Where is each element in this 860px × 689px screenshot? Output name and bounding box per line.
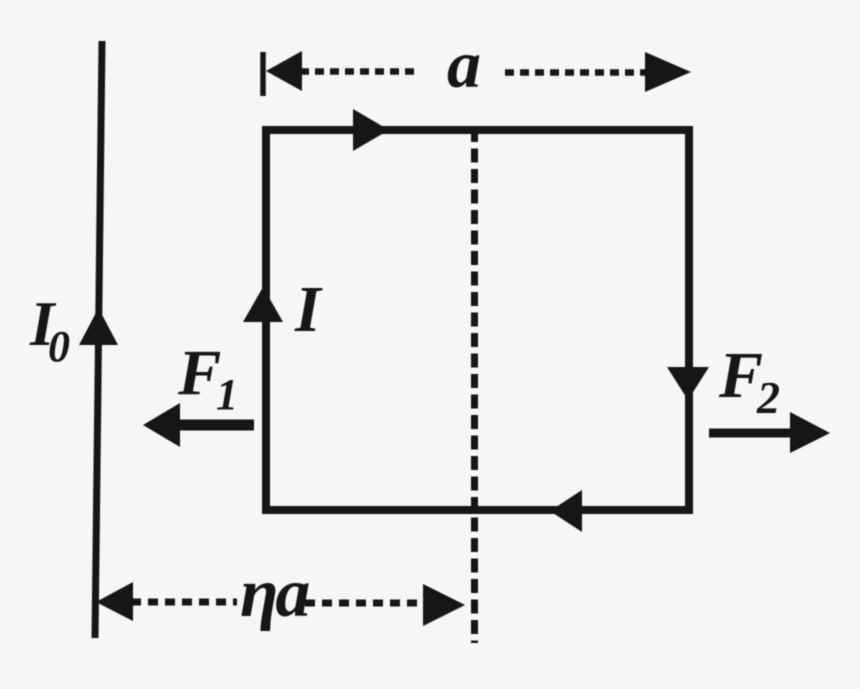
arrowhead loop current top (right)	[353, 109, 389, 151]
dimension a: right dashed line	[505, 69, 645, 76]
force F2 arrow shaft	[709, 429, 792, 438]
force F2 arrowhead (right)	[790, 412, 830, 453]
svg-text:0: 0	[48, 322, 70, 371]
dashed center line	[471, 128, 478, 643]
arrowhead current I0 up	[79, 308, 118, 345]
arrowhead loop current bottom (left)	[550, 490, 582, 532]
dimension eta-a: right dashed line	[305, 600, 421, 607]
svg-text:F: F	[177, 337, 221, 409]
svg-text:a: a	[447, 26, 481, 102]
dimension eta-a: right arrowhead (at dashed line)	[423, 584, 465, 626]
svg-text:ηa: ηa	[240, 555, 309, 632]
label F1	[177, 337, 238, 419]
dimension a: right arrowhead	[645, 52, 691, 92]
label I0	[29, 289, 70, 371]
arrowhead loop current right side (down)	[667, 367, 709, 400]
label I (loop current)	[294, 273, 323, 346]
dimension a: left tick	[260, 52, 266, 96]
svg-text:2: 2	[756, 372, 780, 423]
dimension eta-a: left dashed line	[131, 599, 237, 606]
label eta-a	[240, 555, 309, 632]
force F1 arrowhead (left)	[143, 403, 180, 447]
dimension a: left arrowhead	[266, 51, 302, 91]
dimension eta-a: left arrowhead (at wire)	[96, 582, 133, 621]
label a	[447, 26, 481, 102]
arrowhead loop current left side (up)	[243, 287, 283, 322]
wire I0 (long straight wire)	[95, 41, 102, 638]
dimension a: left dashed line	[300, 68, 420, 75]
label F2	[718, 339, 780, 423]
svg-text:1: 1	[216, 370, 238, 419]
square loop	[266, 130, 689, 510]
svg-text:I: I	[294, 273, 323, 346]
force F1 arrow shaft	[176, 420, 254, 431]
